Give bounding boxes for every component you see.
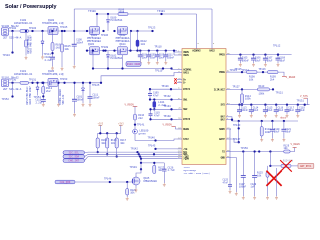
svg-text:10uF: 10uF [278, 109, 284, 112]
svg-text:10uF: 10uF [299, 109, 305, 112]
svg-text:ILIM_HIZ: ILIM_HIZ [214, 88, 226, 91]
svg-text:+3V3: +3V3 [118, 123, 124, 126]
svg-text:TP152: TP152 [2, 98, 10, 101]
svg-text:TP131: TP131 [297, 100, 305, 103]
svg-text:10k: 10k [249, 78, 254, 81]
svg-text:1uF: 1uF [251, 186, 256, 189]
svg-text:TPN4R712MD,L1Q: TPN4R712MD,L1Q [42, 73, 64, 76]
svg-text:10uF: 10uF [267, 59, 273, 62]
svg-text:10k: 10k [130, 192, 135, 195]
svg-text:TP134: TP134 [163, 105, 171, 108]
svg-text:TP145: TP145 [148, 145, 156, 148]
svg-text:1k0: 1k0 [141, 42, 146, 46]
svg-text:TPN4R712MD,L1Q: TPN4R712MD,L1Q [42, 22, 64, 25]
svg-text:TP123: TP123 [148, 26, 156, 29]
svg-text:PMID: PMID [219, 54, 225, 57]
svg-text:TP142: TP142 [131, 148, 139, 151]
svg-text:100nF: 100nF [93, 96, 101, 99]
svg-text:BATP: BATP [219, 138, 225, 141]
svg-text:47nF: 47nF [154, 114, 160, 117]
svg-text:SOD-123: SOD-123 [62, 94, 65, 104]
svg-text:R113: R113 [259, 85, 265, 88]
svg-text:SYS: SYS [221, 104, 226, 107]
svg-text:10uF: 10uF [274, 131, 280, 134]
svg-text:SW1: SW1 [183, 98, 188, 101]
svg-text:10uF: 10uF [288, 109, 294, 112]
svg-text:V_REGN: V_REGN [291, 143, 301, 146]
svg-text:TP110: TP110 [154, 45, 162, 48]
svg-text:CHG_INT: CHG_INT [68, 160, 79, 163]
svg-text:4.7uF: 4.7uF [168, 169, 176, 172]
svg-text:I2C_SCL: I2C_SCL [68, 152, 79, 155]
svg-text:0468F5000-01: 0468F5000-01 [14, 22, 33, 25]
svg-text:TP149: TP149 [130, 166, 138, 169]
svg-text:STAT: STAT [183, 138, 189, 141]
svg-text:10uF: 10uF [279, 59, 285, 62]
svg-text:V_REGN: V_REGN [125, 103, 135, 106]
svg-text:TP146: TP146 [148, 137, 156, 140]
svg-text:nbat: nbat [280, 116, 287, 120]
svg-text:V_SYS: V_SYS [300, 95, 308, 98]
svg-text:TP121: TP121 [276, 92, 284, 95]
svg-text:TP151: TP151 [29, 79, 37, 82]
svg-text:Q103: Q103 [88, 43, 95, 46]
svg-text:V_REGN: V_REGN [163, 123, 173, 126]
svg-text:TP132: TP132 [163, 95, 171, 98]
svg-text:10k: 10k [111, 142, 116, 145]
svg-text:TP106: TP106 [101, 34, 109, 37]
svg-text:BAT: BAT [221, 119, 226, 122]
svg-text:TP109: TP109 [101, 46, 109, 49]
svg-text:10uF: 10uF [267, 109, 273, 112]
svg-text:PLVA653A: PLVA653A [111, 19, 123, 22]
svg-text:Q104: Q104 [119, 43, 126, 46]
svg-text:VAC1: VAC1 [183, 71, 189, 74]
svg-text:0102 MMB 0207: 0102 MMB 0207 [29, 86, 32, 105]
svg-text:2k4: 2k4 [270, 78, 275, 81]
svg-text:TP101: TP101 [157, 10, 165, 13]
svg-text:Solar / Powersupply: Solar / Powersupply [5, 4, 57, 10]
svg-text:SDRV: SDRV [219, 128, 225, 131]
svg-text:TP141: TP141 [137, 124, 145, 127]
svg-text:TP125: TP125 [92, 84, 100, 87]
svg-text:TP150: TP150 [241, 147, 249, 150]
svg-text:10uF: 10uF [253, 109, 259, 112]
svg-text:100nF: 100nF [242, 59, 250, 62]
svg-text:GND: GND [221, 156, 226, 159]
svg-text:2k2: 2k2 [46, 89, 51, 93]
svg-text:100nF: 100nF [241, 109, 249, 112]
svg-text:CHG_QON: CHG_QON [60, 181, 71, 184]
svg-text:10k: 10k [120, 142, 125, 145]
svg-text:VAC2: VAC2 [209, 50, 215, 53]
svg-text:TP119: TP119 [155, 70, 163, 73]
svg-text:TP150: TP150 [9, 79, 17, 82]
svg-text:TP104: TP104 [3, 54, 11, 57]
svg-text:TP143: TP143 [233, 124, 241, 127]
svg-text:REGN: REGN [183, 128, 189, 131]
svg-text:2.2uF: 2.2uF [45, 59, 53, 62]
svg-text:0468F5000-01: 0468F5000-01 [14, 73, 33, 76]
svg-text:BAT_NTC1: BAT_NTC1 [300, 165, 312, 168]
svg-text:PROG: PROG [219, 71, 225, 74]
svg-text:100k: 100k [259, 93, 265, 96]
svg-text:TP100: TP100 [88, 10, 96, 13]
svg-text:TP127: TP127 [232, 85, 240, 88]
svg-text:TP105: TP105 [60, 26, 68, 29]
svg-text:100k: 100k [245, 98, 251, 101]
svg-text:BTST1: BTST1 [183, 88, 191, 91]
svg-text:10uF: 10uF [285, 131, 291, 134]
svg-text:I_REGN: I_REGN [286, 76, 296, 79]
svg-text:I2C Addr: 0x6B (0x36): I2C Addr: 0x6B (0x36) [184, 172, 210, 175]
svg-text:TP102: TP102 [9, 27, 17, 30]
svg-text:100nF: 100nF [76, 41, 84, 44]
svg-text:2.2uF: 2.2uF [36, 101, 44, 104]
svg-text:1k0: 1k0 [56, 45, 61, 49]
svg-text:10k: 10k [284, 147, 289, 150]
svg-text:100nF: 100nF [239, 186, 247, 189]
svg-text:VBUS: VBUS [183, 54, 189, 57]
svg-text:green: green [139, 133, 147, 136]
svg-text:PLVA659A: PLVA659A [111, 57, 123, 60]
svg-text:TP115: TP115 [234, 68, 242, 71]
svg-text:10k: 10k [257, 174, 262, 177]
svg-text:100nF: 100nF [167, 56, 175, 59]
svg-text:10k: 10k [101, 142, 106, 145]
svg-text:10uF: 10uF [255, 59, 261, 62]
svg-text:BTST2: BTST2 [183, 118, 191, 121]
svg-text:/QON: /QON [183, 158, 189, 161]
svg-text:R104 330R: R104 330R [127, 63, 141, 66]
svg-text:0102 MMB 0207: 0102 MMB 0207 [30, 35, 33, 54]
svg-text:TP153: TP153 [60, 78, 68, 81]
svg-text:TP103: TP103 [29, 27, 37, 30]
svg-text:ACDRV2: ACDRV2 [192, 50, 201, 53]
svg-text:+3V3: +3V3 [98, 123, 104, 126]
svg-text:2k2: 2k2 [138, 117, 143, 120]
svg-text:SW2: SW2 [183, 108, 188, 111]
svg-text:TP116: TP116 [258, 68, 266, 71]
svg-text:47nF: 47nF [153, 95, 159, 98]
svg-text:I2C_SDA: I2C_SDA [68, 156, 79, 159]
svg-text:TP112: TP112 [273, 44, 281, 47]
svg-text:10k: 10k [65, 47, 70, 51]
svg-text:330R: 330R [119, 11, 125, 14]
svg-text:TP138: TP138 [163, 115, 171, 118]
svg-text:47nF: 47nF [223, 181, 229, 184]
svg-text:DMN2058UW: DMN2058UW [144, 180, 158, 183]
svg-text:TP148: TP148 [104, 178, 112, 181]
svg-text:TP129: TP129 [161, 85, 169, 88]
